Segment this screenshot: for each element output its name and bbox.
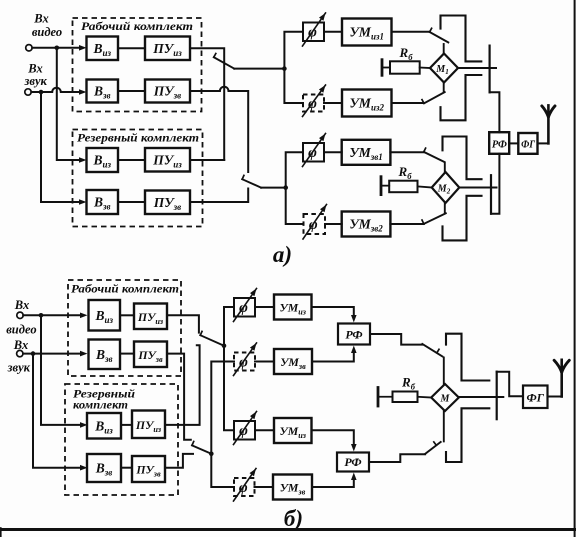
svg-text:РФ: РФ xyxy=(492,138,508,150)
svg-text:РФ: РФ xyxy=(345,328,362,342)
svg-text:Рабочий комплект: Рабочий комплект xyxy=(71,282,179,296)
svg-text:звук: звук xyxy=(24,74,48,88)
svg-text:М: М xyxy=(440,393,451,404)
svg-text:а): а) xyxy=(273,242,292,267)
svg-text:б): б) xyxy=(284,506,303,531)
svg-text:Рабочий комплект: Рабочий комплект xyxy=(81,19,193,33)
svg-text:видео: видео xyxy=(6,322,36,336)
svg-text:Вх: Вх xyxy=(33,12,48,26)
svg-text:ФГ: ФГ xyxy=(521,139,535,151)
svg-text:звук: звук xyxy=(7,361,31,375)
svg-text:РФ: РФ xyxy=(344,455,361,469)
svg-text:Вх: Вх xyxy=(14,298,29,312)
svg-text:Резервный комплект: Резервный комплект xyxy=(77,131,199,145)
svg-text:комплект: комплект xyxy=(73,398,128,412)
svg-text:ФГ: ФГ xyxy=(526,391,544,405)
svg-text:видео: видео xyxy=(32,25,62,39)
